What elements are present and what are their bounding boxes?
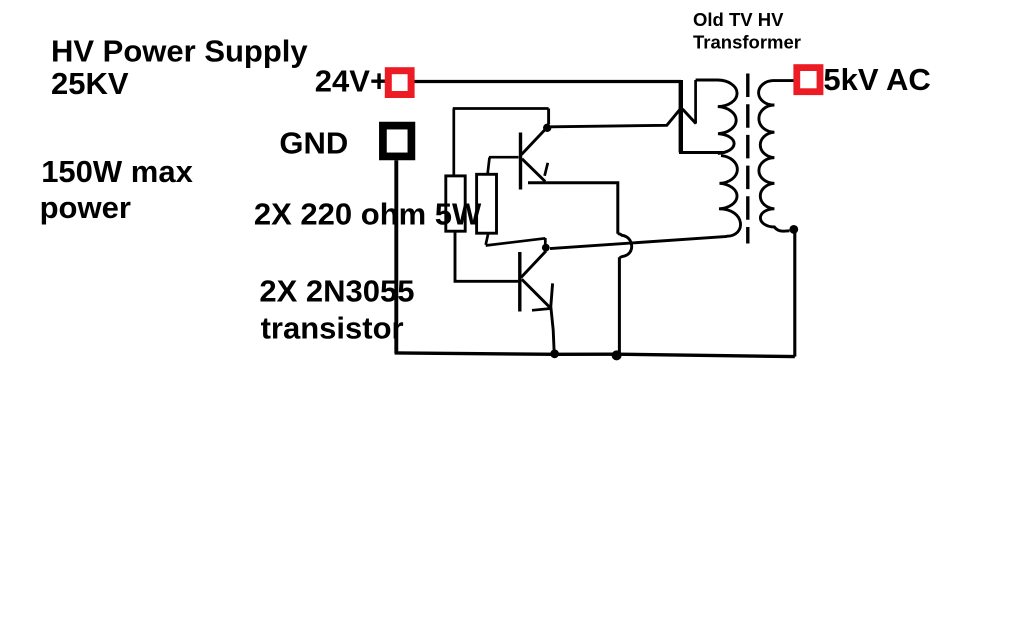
svg-text:24V+: 24V+ [315, 64, 388, 99]
svg-text:2X 220 ohm 5W: 2X 220 ohm 5W [254, 197, 482, 232]
svg-text:2X 2N3055: 2X 2N3055 [259, 274, 414, 309]
svg-text:transistor: transistor [261, 311, 404, 346]
svg-text:Old TV HV: Old TV HV [693, 9, 784, 30]
svg-text:HV Power Supply: HV Power Supply [51, 34, 308, 69]
svg-text:5kV AC: 5kV AC [823, 62, 930, 97]
svg-text:25KV: 25KV [51, 66, 129, 101]
svg-text:150W max: 150W max [41, 154, 193, 189]
svg-text:power: power [40, 190, 131, 225]
svg-text:GND: GND [279, 126, 348, 161]
svg-text:Transformer: Transformer [693, 31, 801, 52]
